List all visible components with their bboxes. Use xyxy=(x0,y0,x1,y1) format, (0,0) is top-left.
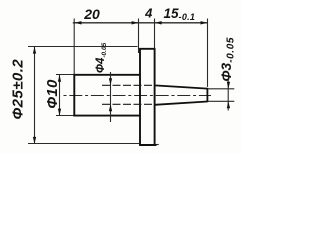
dia4 dimension line xyxy=(110,72,112,122)
body bottom edge extension xyxy=(56,115,76,117)
dia3 arrow up (outside below) xyxy=(227,101,230,108)
dia3 arrow down (outside above) xyxy=(227,82,230,89)
shaft top contour xyxy=(155,85,208,88)
arrow left at 76 xyxy=(75,21,82,24)
pin hidden line bottom xyxy=(102,103,155,105)
body left face xyxy=(73,74,75,117)
center line (axis) xyxy=(64,95,212,97)
svg-text:4: 4 xyxy=(144,6,153,21)
extension line at x=154.5 (dim 4/15) xyxy=(154,19,156,49)
dia3 dimension line xyxy=(227,80,229,111)
shaft tip face xyxy=(206,88,208,102)
svg-text:Ф10: Ф10 xyxy=(44,79,61,109)
dia10 arrow up xyxy=(58,75,61,82)
svg-text:20: 20 xyxy=(83,6,100,22)
flange bottom edge xyxy=(139,144,156,146)
dia10 arrow down xyxy=(58,109,61,116)
flange bottom edge overshoot xyxy=(157,144,159,146)
dia4 arrow up (outside below) xyxy=(109,104,112,111)
extension line at x=138.5 (dim 20/4) xyxy=(138,19,140,54)
flange top edge xyxy=(139,48,155,50)
dia25 extension bottom xyxy=(28,143,140,145)
body (bushing) top edge extension xyxy=(56,74,76,76)
dia4 arrow down (outside above) xyxy=(109,78,112,85)
body bottom edge xyxy=(73,115,140,117)
dia25 arrow down xyxy=(33,137,36,144)
extension line at x=207 (dim 15 right) xyxy=(207,19,209,87)
shaft bottom contour xyxy=(155,102,208,105)
flange left face xyxy=(139,49,141,145)
pin hidden line top xyxy=(102,84,155,86)
extension line at x=76 (dim 20 left) xyxy=(73,19,75,75)
dia3 extension top xyxy=(208,88,234,90)
dia25 extension top xyxy=(28,46,138,48)
dia10 dimension line xyxy=(59,75,61,116)
dia25 dimension line xyxy=(34,47,36,145)
arrow left at 154.7 xyxy=(155,21,162,24)
dimension chain line xyxy=(73,22,208,24)
svg-text:Ф25±0.2: Ф25±0.2 xyxy=(9,59,26,120)
arrow right at 207.5 xyxy=(201,21,208,24)
dia3 extension bottom xyxy=(208,100,234,102)
dia25 arrow up xyxy=(33,47,36,54)
body top edge xyxy=(73,74,140,76)
arrow right at 138.5 xyxy=(132,21,139,24)
flange right face xyxy=(154,49,156,145)
